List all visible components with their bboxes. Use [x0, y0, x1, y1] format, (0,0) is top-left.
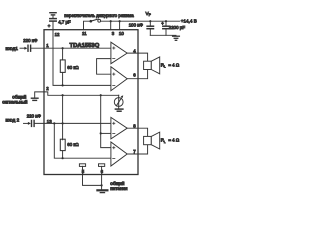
svg-text:10: 10	[119, 31, 124, 36]
svg-text:4,7 µF: 4,7 µF	[58, 19, 71, 24]
op-amp A3	[111, 117, 127, 138]
current source I1	[114, 98, 123, 107]
node R2 top on pin13 wire	[62, 122, 64, 124]
ground (signal, input 1)	[31, 98, 38, 100]
op-amp A2	[111, 67, 127, 91]
wire Vp node down to C2	[149, 21, 151, 25]
node pin5/pin6 joint	[101, 184, 103, 186]
node Vp	[149, 20, 151, 22]
wire C1 to pin 12 and internal rail to op2 inverting input	[53, 22, 111, 86]
ground (power)	[97, 189, 107, 191]
wire to pin 10	[119, 21, 121, 30]
svg-text:11: 11	[82, 31, 87, 36]
wire ch2 rail (pin13 to op4 inverting)	[54, 123, 111, 158]
svg-text:60 кΩ: 60 кΩ	[67, 142, 79, 147]
node pin10	[119, 20, 121, 22]
wire input1 to op1 + input (pin 1)	[31, 47, 111, 49]
svg-text:220 нФ: 220 нФ	[27, 113, 42, 118]
svg-text:сигнальный: сигнальный	[2, 98, 28, 104]
arrow input 2	[24, 122, 29, 124]
svg-text:2200 µF: 2200 µF	[169, 25, 186, 30]
pin 11 wire	[84, 21, 90, 30]
svg-text:переключатель дежурного режима: переключатель дежурного режима	[64, 13, 134, 18]
pin 8 output wire to speaker	[127, 128, 147, 136]
wire C2 to bottom rail	[149, 29, 151, 35]
svg-text:+: +	[161, 21, 164, 26]
pin 5 tab	[79, 164, 85, 167]
node op3 inverting joint	[100, 132, 102, 134]
ground (power caps)	[173, 36, 180, 40]
capacitor C1 4.7uF	[50, 19, 56, 22]
wire switch to Vp node	[101, 20, 180, 22]
svg-text:= 4 Ω: = 4 Ω	[168, 62, 179, 67]
node R1 top	[62, 47, 64, 49]
speaker LS2	[144, 136, 152, 144]
node rail/bracket2 column	[100, 94, 102, 96]
node C3 top	[165, 20, 167, 22]
wire op1 inverting to op2 + (bracket)	[97, 59, 111, 75]
capacitor C3 2200uF	[163, 26, 169, 29]
pin 7 output wire to speaker	[127, 145, 147, 154]
svg-text:= 4 Ω: = 4 Ω	[168, 138, 179, 143]
pin 2 internal rail	[44, 92, 119, 95]
node R2 bottom on ch2 rail	[62, 157, 64, 159]
node R1 bottom on rail	[62, 84, 64, 86]
svg-text:+14,4 В: +14,4 В	[181, 19, 197, 24]
op-amp A1	[111, 42, 127, 64]
ground (above 4.7uF cap)	[50, 13, 56, 15]
svg-text:+: +	[48, 24, 51, 29]
pin 2 wire to signal ground	[35, 92, 44, 98]
svg-text:питания: питания	[110, 186, 128, 191]
wire bracket ch2 (rail to op3 inverting / op4 +)	[101, 95, 111, 147]
svg-text:12: 12	[55, 32, 60, 37]
bottom rail to ground	[150, 34, 176, 36]
IC box TDA1553Q	[44, 30, 138, 175]
op-amp A4	[111, 142, 127, 166]
svg-text:13: 13	[47, 119, 52, 124]
pin 6 tab	[99, 164, 105, 167]
node rail/R2 column	[62, 94, 64, 96]
node pin3	[110, 20, 112, 22]
wire C3 to bottom rail	[165, 29, 167, 35]
pin 5 wire	[83, 166, 102, 185]
svg-text:220 нФ: 220 нФ	[23, 38, 38, 43]
wire to op3 inverting input	[101, 132, 111, 134]
capacitor C2 100nF	[147, 26, 153, 29]
pin 4 output wire to speaker	[127, 53, 147, 61]
svg-text:вход 2: вход 2	[6, 118, 20, 123]
resistor R1 60k	[62, 48, 64, 60]
speaker LS1	[144, 61, 152, 69]
wire ground to C 4.7uF	[52, 16, 54, 19]
node ch2 rail drop	[53, 122, 55, 124]
ground (current source)	[115, 109, 123, 111]
wire to pin 3	[110, 21, 112, 30]
switch S1	[90, 20, 93, 23]
svg-text:100 нФ: 100 нФ	[129, 23, 144, 28]
pin 6 wire to power ground	[101, 166, 103, 189]
svg-text:вход1: вход1	[6, 46, 19, 51]
svg-text:60 кΩ: 60 кΩ	[67, 65, 79, 70]
resistor R2 60k	[62, 95, 64, 140]
pin 6 output wire to speaker	[127, 70, 147, 79]
wire to C3	[165, 21, 167, 25]
wire input2 to op3 + input (pin 13)	[35, 122, 111, 124]
arrow input 1	[20, 47, 25, 49]
